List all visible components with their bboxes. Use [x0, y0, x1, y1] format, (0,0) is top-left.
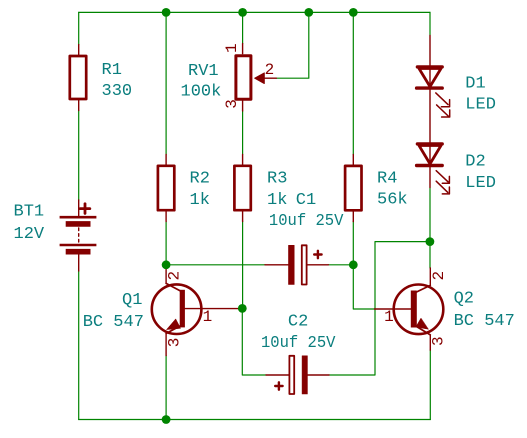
svg-text:R4: R4 [377, 170, 397, 189]
wire Q1 collector node to C1 [166, 264, 265, 266]
LED D1 [417, 36, 450, 118]
wire Q2 emitter to bottom rail [429, 350, 431, 419]
wire R1 to battery [78, 111, 80, 201]
svg-text:D2: D2 [465, 153, 485, 172]
wire bottom rail [79, 419, 431, 421]
wire rail to R4 [352, 12, 354, 154]
wire Q1 base node to C2 left [242, 308, 266, 375]
label RV1 value [181, 62, 222, 102]
svg-text:LED: LED [465, 96, 496, 115]
label Q1 value [83, 291, 144, 332]
svg-text:3: 3 [166, 338, 184, 348]
svg-text:1k: 1k [267, 191, 287, 210]
label R2 value [190, 170, 210, 211]
svg-text:RV1: RV1 [188, 62, 219, 81]
wire C1 right to R4 node [328, 264, 353, 266]
svg-text:R3: R3 [267, 170, 287, 189]
resistor R1 [70, 45, 86, 111]
svg-text:56k: 56k [377, 191, 408, 210]
wire C1 node to Q2 base [353, 265, 374, 309]
junction rail-R2 [162, 8, 171, 17]
wire battery to bottom rail [78, 271, 80, 420]
svg-text:1: 1 [203, 308, 213, 326]
svg-text:BT1: BT1 [14, 203, 45, 222]
battery BT1 [60, 200, 97, 271]
capacitor C1 [265, 245, 328, 284]
transistor Q2 [375, 268, 444, 350]
label R4 value [377, 170, 408, 210]
svg-text:R2: R2 [190, 170, 210, 189]
resistor R3 [234, 154, 250, 221]
svg-text:2: 2 [166, 271, 184, 281]
junction Q1 collector node [162, 260, 171, 269]
label R3 value [267, 170, 287, 211]
svg-text:1k: 1k [190, 191, 210, 210]
wire rail to RV1 [242, 12, 244, 43]
capacitor C2 [266, 356, 329, 394]
svg-text:Q2: Q2 [454, 290, 474, 309]
label Q2 value [454, 290, 515, 332]
junction rail-RV1 [238, 8, 247, 17]
LED D2 [417, 88, 450, 194]
junction emitter-bottom rail [162, 415, 171, 424]
svg-text:BC 547: BC 547 [454, 312, 515, 331]
resistor R2 [158, 154, 174, 221]
svg-text:2: 2 [430, 271, 448, 281]
svg-text:D1: D1 [465, 75, 485, 94]
svg-text:R1: R1 [102, 61, 122, 80]
svg-text:330: 330 [102, 82, 133, 101]
junction rail-wiper [304, 8, 313, 17]
wire left rail upper (rail to R1) [78, 12, 80, 44]
svg-text:C2: C2 [288, 313, 308, 332]
svg-text:10uf 25V: 10uf 25V [261, 334, 336, 353]
label BT1 value [14, 203, 45, 245]
svg-text:2: 2 [265, 61, 275, 79]
wire D2 to Q2 collector node [429, 188, 431, 269]
svg-text:1: 1 [223, 43, 241, 53]
svg-text:BC 547: BC 547 [83, 313, 144, 332]
label C2 value [261, 313, 336, 354]
svg-text:100k: 100k [181, 83, 222, 102]
wire top rail [79, 11, 430, 13]
resistor R4 [345, 155, 361, 222]
junction Q1 base node [238, 304, 247, 313]
junction Q2 collector node [426, 237, 435, 246]
svg-text:12V: 12V [14, 225, 45, 244]
transistor Q1 [152, 266, 240, 356]
svg-text:Q1: Q1 [122, 291, 142, 310]
wire Q1 emitter to bottom rail [165, 356, 167, 420]
label D1 value [465, 75, 496, 115]
junction C1-R4 node [349, 260, 358, 269]
wire R4 to C1 node [352, 222, 354, 265]
junction rail-R4 [349, 8, 358, 17]
wire RV1 wiper to rail [276, 12, 309, 78]
wire RV1 to R3 [242, 111, 244, 154]
svg-text:C1: C1 [296, 191, 316, 210]
label C1 value [269, 191, 344, 231]
svg-text:LED: LED [465, 174, 496, 193]
svg-text:3: 3 [223, 99, 241, 109]
potentiometer RV1 [236, 44, 276, 111]
svg-text:10uf 25V: 10uf 25V [269, 212, 344, 231]
label D2 value [465, 153, 496, 194]
wire C2 right to Q2 collector node [329, 242, 430, 375]
wire R2 to Q1 collector node [165, 222, 167, 267]
wire rail to R2 [165, 12, 167, 154]
label R1 value [102, 61, 133, 101]
wire R3 to Q1 base node [242, 222, 244, 309]
wire rail to D1 [429, 12, 431, 35]
svg-text:3: 3 [430, 336, 448, 346]
svg-text:1: 1 [384, 308, 394, 326]
